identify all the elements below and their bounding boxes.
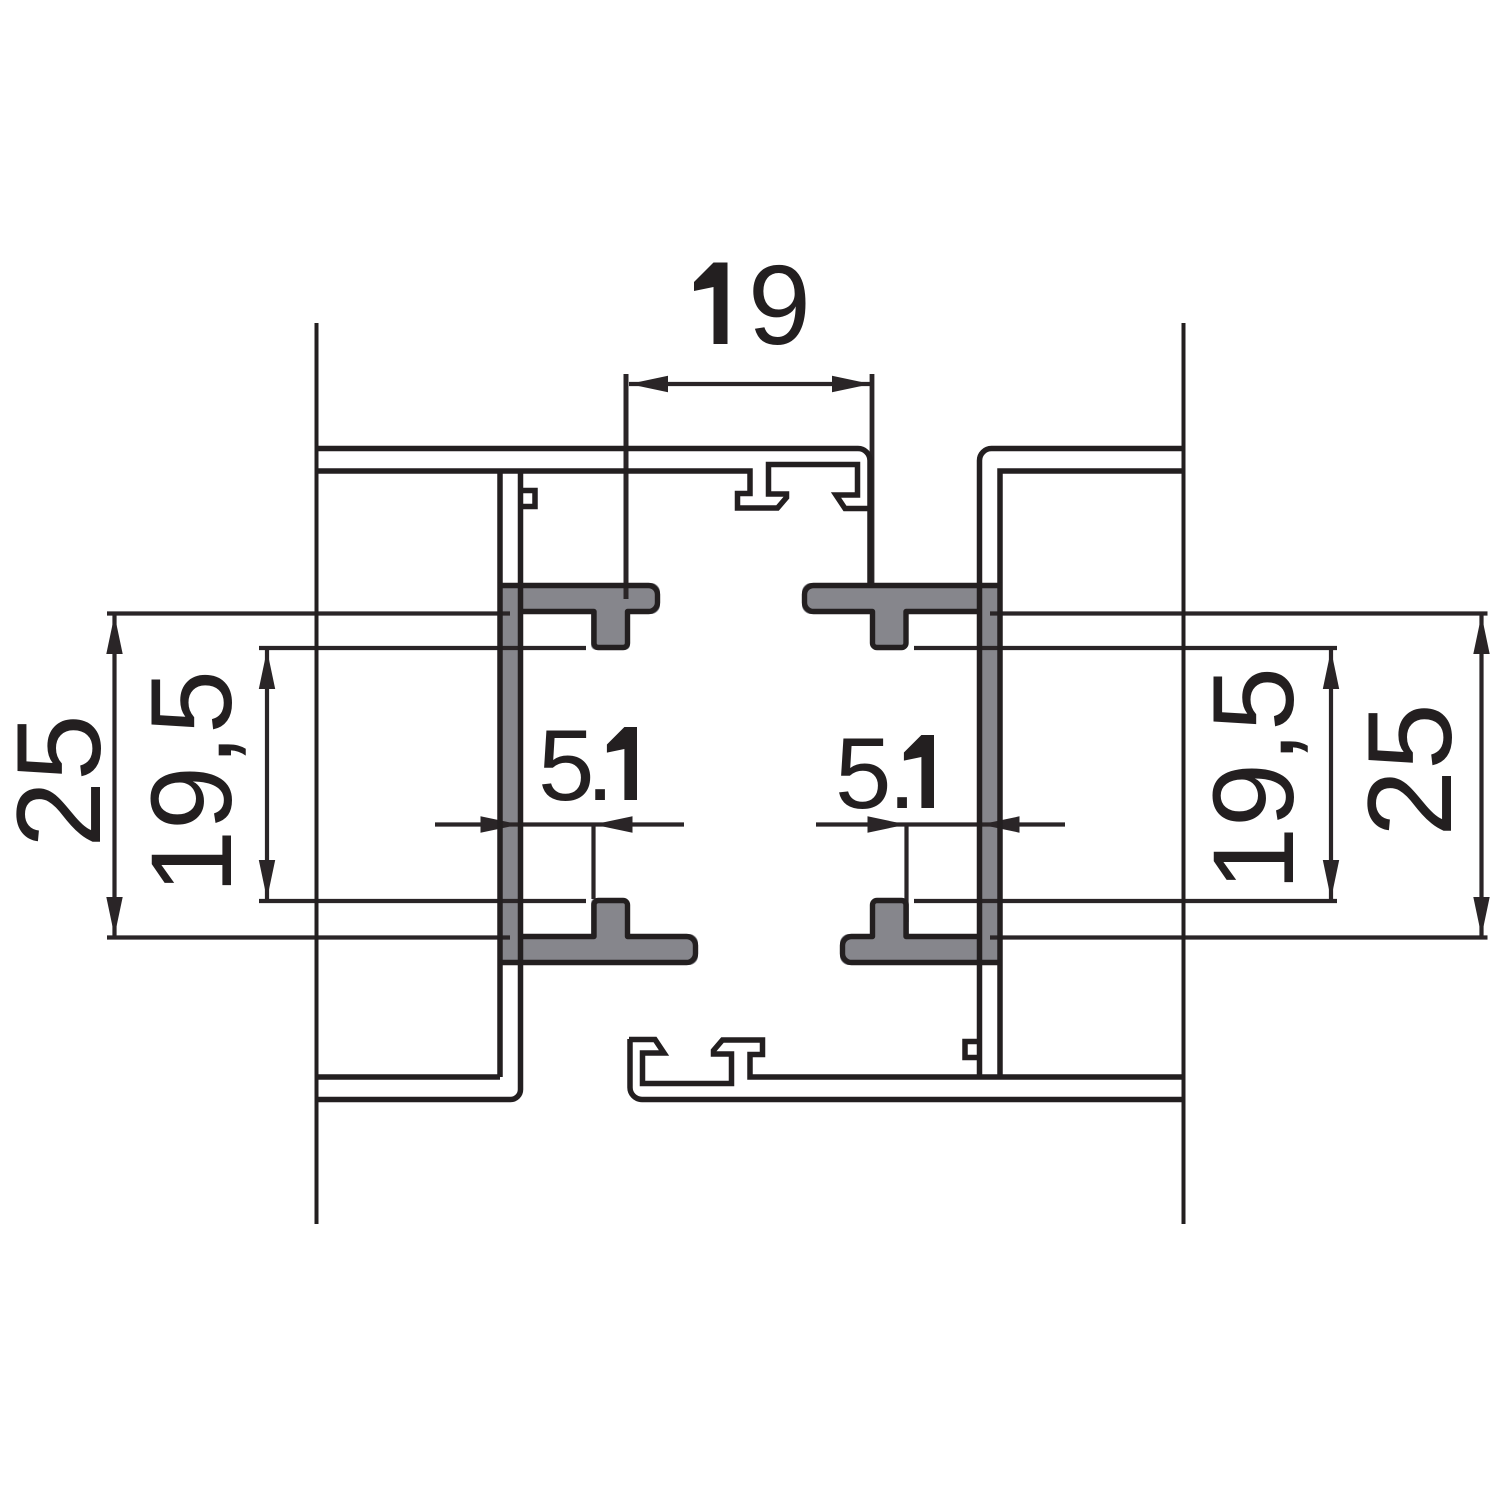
arrow 19 left <box>629 376 668 392</box>
top outer flange with corner <box>317 449 871 589</box>
arrow 5.1 left-right <box>594 816 633 832</box>
dim 25 left extensions <box>107 611 510 615</box>
top right inner flange <box>1000 471 1184 1077</box>
dim 5.1 left drop extension <box>591 825 595 900</box>
upper-right gasket fill <box>981 583 998 960</box>
bottom outer flange with corner <box>630 1039 1184 1100</box>
dim 19 right extension <box>870 374 875 588</box>
arrow 19,5 right top <box>1323 650 1339 689</box>
dimension thin lines <box>107 374 1488 938</box>
svg-text:5: 5 <box>835 716 891 830</box>
left inner wall with bottom corner <box>317 471 521 1100</box>
dim 5.1 left line <box>435 822 684 826</box>
arrow 5.1 left-left <box>481 816 520 832</box>
gasket gray fills <box>498 583 1002 965</box>
arrow 25 right bottom <box>1473 897 1489 936</box>
arrow 19,5 right bottom <box>1323 860 1339 899</box>
arrow 5.1 right-left <box>868 816 907 832</box>
arrow 25 right top <box>1473 615 1489 654</box>
left outer wall <box>497 471 503 1077</box>
bottom inner flange and T-slot feet <box>629 1040 1184 1084</box>
arrow 19,5 left bottom <box>259 860 275 899</box>
svg-text:9: 9 <box>748 242 811 368</box>
arrow 25 left bottom <box>106 897 122 936</box>
dim 5.1 right drop extension <box>904 825 908 923</box>
dim 25 right line <box>1479 615 1483 936</box>
gasket outlines <box>498 586 1002 963</box>
arrow 25 left top <box>106 615 122 654</box>
dim 19 line <box>629 382 871 386</box>
dimension texts <box>0 242 1477 894</box>
top inner flange and T-slot feet <box>317 465 872 509</box>
lower-left gasket fill <box>498 934 698 965</box>
dim 19,5 right extensions <box>914 646 1337 650</box>
left inner wall bump <box>521 491 536 507</box>
svg-text:25: 25 <box>0 714 126 847</box>
left glass plane vertical <box>315 323 319 1224</box>
dim 19 left extension <box>624 374 629 599</box>
lower-right gasket outline <box>843 901 1003 963</box>
svg-text:19,5: 19,5 <box>1190 667 1318 891</box>
dim 5.1 right line <box>816 822 1065 826</box>
upper-left gasket outline <box>498 586 658 648</box>
dim 19,5 left line <box>265 649 269 900</box>
svg-text:25: 25 <box>1343 703 1477 836</box>
svg-text:.: . <box>586 708 614 822</box>
arrow 19 right <box>832 376 871 392</box>
arrow 5.1 right-right <box>981 816 1020 832</box>
right inner wall bump <box>965 1042 980 1058</box>
svg-text:19,5: 19,5 <box>128 670 256 894</box>
svg-text:.: . <box>888 716 916 830</box>
right glass plane vertical <box>1182 323 1186 1224</box>
lower-right gasket fill <box>840 934 1002 965</box>
lower-left gasket outline <box>498 901 696 963</box>
dim 25 left line <box>112 615 116 936</box>
dim 25 right extensions <box>990 611 1488 615</box>
upper-left gasket fill <box>502 586 519 963</box>
top right outer flange with rounded corner <box>980 449 1184 1078</box>
bottom left panel inner line <box>317 1074 501 1080</box>
dim 19,5 left extensions <box>259 646 586 650</box>
profile outlines <box>317 323 1184 1224</box>
dim 19,5 right line <box>1329 649 1333 900</box>
upper-right gasket outline <box>805 586 1003 648</box>
arrow 19,5 left top <box>259 650 275 689</box>
dimension arrows <box>106 376 1489 936</box>
